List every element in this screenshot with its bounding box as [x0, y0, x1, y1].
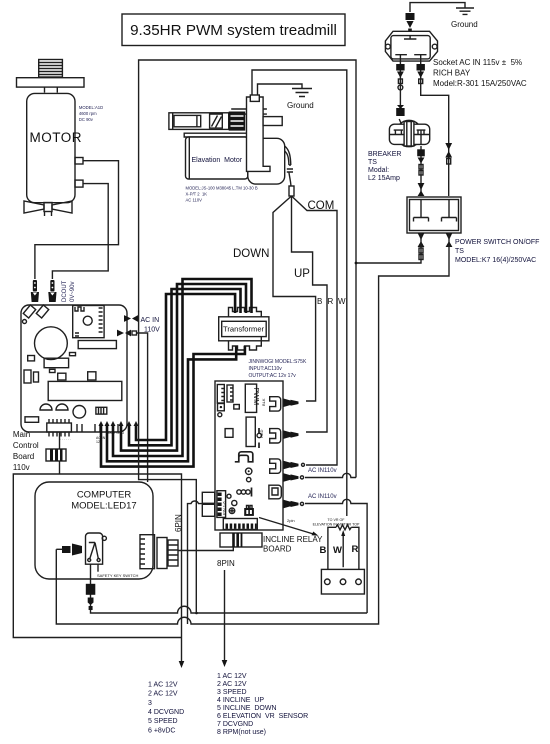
svg-text:TS: TS [455, 248, 464, 255]
faston on safety bottom wire [86, 584, 96, 610]
wire COM [292, 196, 338, 465]
elevation bracket arm [263, 117, 282, 126]
svg-text:6 +8vDC: 6 +8vDC [148, 728, 175, 735]
svg-text:Transformer: Transformer [223, 325, 265, 334]
incline relay label [263, 535, 323, 554]
svg-text:RED: RED [259, 429, 264, 438]
svg-text:RICH BAY: RICH BAY [433, 69, 471, 78]
svg-text:DOWN: DOWN [233, 248, 269, 260]
terminal T4 frame [269, 485, 281, 499]
svg-text:Main: Main [13, 430, 30, 439]
ground wire (elevation) [258, 84, 303, 95]
elevation model text [186, 186, 258, 203]
motor M1 flywheel [17, 78, 85, 87]
svg-text:5 INCLINE DOWN: 5 INCLINE DOWN [217, 705, 277, 712]
svg-text:Control: Control [13, 441, 39, 450]
wire breaker to power switch [420, 146, 422, 196]
MCB rect r7 [25, 417, 39, 423]
svg-text:AC IN110v: AC IN110v [308, 468, 337, 474]
elevation screw coupling (black) [229, 112, 246, 131]
elevation wire stub [250, 95, 259, 101]
MCB resistor bank [78, 341, 116, 349]
VR resistor [336, 525, 351, 530]
PWM relay staple [235, 452, 253, 462]
MCB tiny labels [60, 431, 125, 444]
junction dot [195, 612, 198, 615]
power switch [407, 197, 461, 233]
AC IN label [141, 317, 161, 334]
6pin drop wire + 6PIN list arrow [60, 474, 185, 668]
PWM triple circles [237, 488, 252, 497]
MCB bottom pads [77, 424, 118, 432]
MCB rect r6 [88, 372, 96, 380]
terminal T3 (com) [270, 459, 305, 473]
terminal T2 (up) [259, 429, 299, 443]
svg-text:W: W [338, 297, 346, 306]
wire power switch R to safety loop (hop over 6pin drop) [56, 233, 449, 624]
svg-text:Elavation Motor: Elavation Motor [192, 157, 243, 164]
svg-text:Board: Board [13, 452, 34, 461]
svg-text:4 INCLINE UP: 4 INCLINE UP [217, 697, 264, 704]
computer box [35, 482, 153, 579]
svg-text:6 ELEVATION VR SENSOR: 6 ELEVATION VR SENSOR [217, 713, 308, 720]
PWM rect a [218, 404, 225, 411]
AC IN faston 2 at MCB [117, 330, 137, 337]
wire socket-R to power switch [421, 61, 449, 196]
wire power switch L to AC loop [356, 233, 421, 263]
svg-text:AC IN110v: AC IN110v [308, 494, 337, 500]
MCB rect r1 [28, 356, 35, 361]
main control board MCB [21, 305, 127, 432]
elevation actuator tube [169, 113, 229, 130]
computer label [71, 490, 136, 512]
svg-text:BLK: BLK [261, 398, 266, 406]
wire H2 from AC loop to 6pin header drop [139, 319, 197, 614]
terminal T4 (AC2) [284, 500, 304, 509]
svg-text:POWER SWITCH ON/OFF: POWER SWITCH ON/OFF [455, 239, 539, 246]
wire computer connector to 8pin cable [178, 547, 233, 551]
annotation arrow to 2pin [259, 518, 319, 536]
AC IN faston 1 at MCB [124, 315, 138, 322]
PWM circle a [218, 413, 222, 417]
transformer input wire 3 [121, 284, 246, 451]
svg-text:2 AC 12V: 2 AC 12V [217, 681, 247, 688]
PWM circle b [246, 468, 252, 474]
faston power switch bottom-L [418, 233, 425, 260]
wire motor- to DCOUT [52, 184, 108, 279]
transformer output wire 2 [101, 346, 245, 467]
motor terminal lower [75, 180, 83, 187]
faston on socket-R wire [417, 64, 425, 84]
elevation top rail [231, 109, 267, 114]
wire W (elevation VR white) [252, 70, 347, 516]
PWM rect c [225, 429, 233, 438]
svg-text:3: 3 [148, 700, 152, 707]
8pin cable connector [220, 533, 262, 547]
MCB sub-board [73, 306, 104, 338]
breaker label [368, 151, 401, 182]
MCB rect r5 [58, 373, 66, 380]
svg-text:Ground: Ground [451, 20, 478, 29]
svg-text:L2 15Amp: L2 15Amp [368, 175, 400, 182]
MCB circle c2 [73, 406, 86, 419]
svg-text:Model:R-301 15A/250VAC: Model:R-301 15A/250VAC [433, 79, 527, 88]
motor terminal upper [75, 158, 83, 165]
MCB tiny rect t2 [70, 353, 76, 356]
faston at power switch L-top [418, 183, 425, 196]
VR sensor tiny text [313, 518, 360, 527]
computer 6pin comb [140, 535, 155, 569]
breaker TS [389, 120, 429, 146]
transformer output wire 1 [107, 346, 236, 461]
svg-text:9.35HR PWM system treadmill: 9.35HR PWM system treadmill [130, 22, 337, 39]
socket ground wire [410, 3, 465, 12]
PWM small circles [227, 494, 237, 513]
safety key switch [86, 533, 107, 572]
computer 6pin connector [157, 538, 178, 569]
power switch label [455, 239, 539, 264]
svg-text:AC 110V: AC 110V [186, 198, 203, 203]
MCB label [13, 430, 39, 472]
svg-text:Modal:: Modal: [368, 167, 389, 174]
transformer T1 [219, 308, 269, 351]
svg-text:1 AC 12V: 1 AC 12V [148, 682, 178, 689]
8PIN list arrow [222, 570, 228, 667]
title box [122, 14, 345, 46]
svg-text:PWM: PWM [252, 388, 261, 406]
VR wiper arrow [341, 530, 345, 567]
socket label [433, 58, 527, 88]
svg-text:B: B [317, 297, 322, 306]
ground symbol (socket) [456, 8, 474, 14]
MCB diode D1 [40, 404, 52, 410]
transformer input wire 4 [113, 279, 252, 456]
faston on socket-L wire [396, 64, 404, 116]
faston on wire above power switch R [445, 143, 452, 164]
svg-text:R: R [328, 297, 334, 306]
PWM bottom 8pin header [223, 519, 257, 530]
svg-text:DC 90v: DC 90v [79, 117, 94, 122]
svg-text:0V~90v: 0V~90v [70, 281, 76, 302]
wire UP [292, 196, 328, 432]
MCB hinge pin 2 [36, 305, 48, 318]
VR sensor box [328, 527, 359, 569]
svg-text:3 SPEED: 3 SPEED [217, 689, 247, 696]
PWM label box [245, 384, 261, 412]
MCB tiny circle [23, 320, 27, 324]
MCB heatsink [48, 381, 122, 400]
PWM cap marks [258, 428, 260, 448]
inline connector on 6pin cable [46, 449, 66, 461]
svg-text:8PIN: 8PIN [217, 559, 235, 568]
motor model text [79, 105, 103, 122]
arrows into MCB pins [99, 421, 139, 426]
PWM circle c [247, 477, 251, 481]
svg-text:Ground: Ground [287, 101, 314, 110]
svg-text:MODEL:LED17: MODEL:LED17 [71, 501, 136, 512]
svg-text:4600 rpm: 4600 rpm [79, 111, 97, 116]
svg-text:1 AC 12V: 1 AC 12V [217, 673, 247, 680]
PWM left connector block [202, 491, 226, 518]
motor M1 neck [45, 87, 58, 93]
MCB rect r3 [24, 370, 31, 383]
svg-text:MODEL:JS-100 M38045 L.TM 10-30: MODEL:JS-100 M38045 L.TM 10-30 B [186, 186, 258, 191]
elevation cable connector [289, 186, 294, 196]
svg-text:7 DCVGND: 7 DCVGND [217, 721, 253, 728]
svg-text:B: B [320, 545, 327, 556]
svg-text:TO VR OF: TO VR OF [328, 518, 346, 522]
MCB capacitor [35, 327, 68, 360]
svg-text:PIN 1-6: PIN 1-6 [221, 501, 226, 515]
elevation motor cylinder [248, 138, 285, 184]
terminal T3b (AC) [284, 473, 304, 482]
junction dot AC loop [355, 262, 358, 265]
svg-text:Socket AC IN 115v ± 5%: Socket AC IN 115v ± 5% [433, 58, 522, 67]
svg-text:X-P/T 2 1K: X-P/T 2 1K [186, 192, 208, 197]
ground symbol (elevation) [292, 89, 312, 97]
motor fan (bowtie) [24, 201, 72, 216]
svg-text:R: R [352, 544, 359, 555]
svg-text:4 DCVGND: 4 DCVGND [148, 709, 184, 716]
svg-text:MOTOR: MOTOR [30, 130, 83, 145]
svg-text:SAFETY KEY SWITCH: SAFETY KEY SWITCH [97, 573, 139, 578]
MCB rect r4 [34, 372, 39, 382]
wire motor+ to DCOUT [35, 161, 119, 279]
svg-text:MODEL:K7 16(4)/250VAC: MODEL:K7 16(4)/250VAC [455, 257, 536, 264]
wire AC1 to relay board (hop over W) [305, 473, 356, 477]
faston power switch bottom-R [446, 233, 453, 247]
motor M1 body [27, 93, 82, 202]
svg-text:5 SPEED: 5 SPEED [148, 718, 178, 725]
svg-text:JINNWOGI MODEL:S75K: JINNWOGI MODEL:S75K [249, 359, 307, 365]
MCB tiny rect t1 [50, 369, 56, 372]
VR labels B W R [320, 544, 359, 556]
safety key plug [56, 544, 82, 556]
svg-text:. . . . . .: . . . . . . [60, 437, 71, 441]
socket AC inlet body [385, 31, 437, 61]
DCOUT faston pair 1 [31, 280, 39, 302]
terminal T1 (down) [261, 397, 299, 411]
svg-text:DCOUT: DCOUT [62, 280, 68, 302]
wire board connector to computer cable drop [188, 501, 202, 624]
svg-text:TS: TS [368, 159, 377, 166]
transformer label [249, 359, 307, 379]
wire socket-L to breaker [399, 61, 404, 130]
MCB IC U1 [47, 419, 72, 437]
svg-text:MODEL:A1D: MODEL:A1D [79, 105, 103, 110]
AC loop wire (MCB AC-IN up over top to power switch / relay) [139, 60, 356, 478]
PWM connector comb 2 [227, 385, 233, 402]
PWM 2pin connector [244, 505, 254, 516]
elevation motor body [184, 133, 248, 179]
6PIN pin list [148, 682, 184, 735]
svg-text:BOARD: BOARD [263, 545, 292, 554]
socket top faston [406, 13, 415, 32]
PWM board (incline relay board) [215, 381, 283, 530]
VR terminal block [321, 569, 364, 594]
svg-text:AC IN: AC IN [141, 317, 160, 324]
6pin cable from MCB [13, 432, 181, 638]
safety key bottom wire (hop over 6pin drop) [91, 564, 368, 613]
svg-text:2pin: 2pin [287, 518, 295, 523]
PWM connector comb 1 [217, 385, 224, 404]
MCB comb [96, 407, 107, 414]
faston below breaker [417, 149, 425, 175]
svg-text:8 RPM(not use): 8 RPM(not use) [217, 729, 266, 736]
wire AC-IN-2 to computer corner [137, 333, 148, 482]
svg-text:W: W [333, 545, 342, 556]
PWM rect b [234, 405, 240, 410]
transformer input wire 1 [136, 294, 235, 440]
DCOUT faston pair 2 [48, 280, 56, 302]
transformer input wire 2 [129, 289, 241, 445]
motor M1 shaft [39, 60, 63, 78]
elevation bracket [247, 97, 271, 171]
svg-text:110v: 110v [13, 463, 30, 472]
MCB diode D2 [56, 404, 68, 410]
svg-text:2 AC 12V: 2 AC 12V [148, 691, 178, 698]
8PIN pin list [217, 673, 308, 736]
MCB hinge pin 1 [23, 305, 35, 318]
PWM tall rect [246, 417, 255, 446]
svg-text:BREAKER: BREAKER [368, 151, 401, 158]
wire DOWN (B) [273, 196, 316, 401]
svg-text:COM: COM [308, 200, 335, 212]
svg-text:COMPUTER: COMPUTER [77, 490, 132, 501]
svg-text:OUTPUT:AC 12v 17v: OUTPUT:AC 12v 17v [249, 373, 297, 379]
svg-text:INPUT:AC110v: INPUT:AC110v [249, 366, 283, 372]
svg-text:UP: UP [294, 268, 310, 280]
DCOUT label [62, 280, 76, 302]
svg-text:INCLINE RELAY: INCLINE RELAY [263, 535, 323, 544]
wire AC2 to relay board (hop over W) [305, 499, 367, 613]
MCB rect r2 [44, 358, 69, 368]
elevation cable [285, 146, 293, 186]
